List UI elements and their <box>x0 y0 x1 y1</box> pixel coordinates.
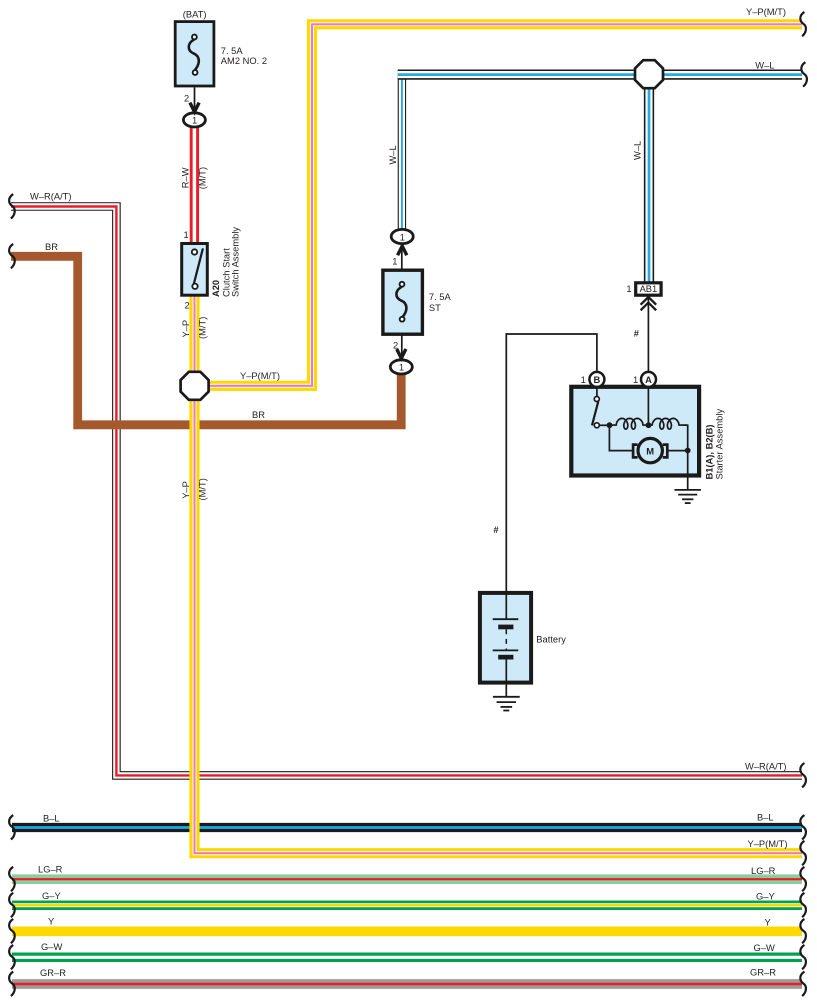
svg-text:GR–R: GR–R <box>750 968 776 978</box>
connector 1 below AM2 fuse <box>183 113 205 127</box>
double chevron below AB1 <box>641 297 657 310</box>
svg-text:Y: Y <box>48 917 55 927</box>
break B-L left <box>9 815 15 839</box>
break G-Y right <box>800 893 806 917</box>
wire R-W between connector 1 and clutch start switch pin 1 <box>190 124 199 244</box>
break W-R(A/T) left <box>9 194 15 218</box>
starter internal: relay blade <box>592 401 598 425</box>
starter internal: motor right wire <box>667 450 687 452</box>
svg-text:A20: A20 <box>211 280 221 297</box>
wire W-L from octagon junction down to connector AB1 <box>644 75 654 283</box>
svg-text:GR–R: GR–R <box>40 968 66 978</box>
svg-text:2: 2 <box>184 300 189 310</box>
bus B-L <box>12 823 802 832</box>
svg-text:1: 1 <box>192 116 197 126</box>
break Y-P(M/T) top right <box>800 12 806 36</box>
break Y right <box>800 919 806 943</box>
wire W-L horizontal to right break <box>398 69 802 79</box>
fuse symbol ST <box>396 287 406 318</box>
wire W-R(A/T) from left break down to bottom-right break <box>11 207 802 776</box>
wire Y-P from clutch switch pin 2 through octagon down to bottom-right break <box>195 296 803 853</box>
terminal B circle <box>589 372 604 387</box>
pin 1 lead of ST fuse <box>401 243 403 270</box>
svg-text:Y–P(M/T): Y–P(M/T) <box>748 839 788 849</box>
bus G-Y <box>12 900 802 910</box>
svg-text:7. 5A: 7. 5A <box>429 292 452 302</box>
svg-text:1: 1 <box>581 375 586 385</box>
break BR left <box>9 244 15 268</box>
arrow down into connector below AM2 <box>190 103 199 112</box>
break G-W right <box>800 945 806 969</box>
break GR-R left <box>9 972 15 996</box>
svg-text:1: 1 <box>392 256 397 266</box>
break W-L right <box>801 62 807 86</box>
clutch start switch box A20 <box>182 244 208 296</box>
arrow up into connector above ST <box>398 246 407 255</box>
svg-text:AM2 NO. 2: AM2 NO. 2 <box>221 56 267 66</box>
svg-text:#: # <box>634 329 640 339</box>
break G-Y left <box>9 893 15 917</box>
battery internal symbol <box>505 593 507 619</box>
wire Y-P(M/T) from octagon right then up to top-right break <box>194 24 802 386</box>
motor brush right <box>663 445 668 458</box>
ground symbol (battery) <box>505 685 507 697</box>
svg-text:LG–R: LG–R <box>751 866 776 876</box>
svg-text:W–R(A/T): W–R(A/T) <box>30 191 72 201</box>
svg-text:#: # <box>493 525 499 535</box>
ground symbol (starter) <box>675 489 701 491</box>
svg-text:(M/T): (M/T) <box>198 167 208 189</box>
battery box <box>480 593 531 683</box>
starter internal: lead from B to relay switch <box>596 387 598 397</box>
svg-text:Y–P(M/T): Y–P(M/T) <box>746 7 786 17</box>
starter internal: node to motor left <box>609 424 633 451</box>
junction dot motor right node <box>685 448 691 454</box>
break B-L right <box>800 815 806 839</box>
break LG-R left <box>9 867 15 891</box>
terminal A circle <box>641 372 656 387</box>
starter internal: right side wire down to ground <box>683 425 688 490</box>
break GR-R right <box>800 972 806 996</box>
svg-text:(BAT): (BAT) <box>183 9 207 19</box>
fuse symbol AM2 <box>189 39 199 70</box>
svg-text:2: 2 <box>184 94 189 104</box>
motor brush left <box>633 445 638 458</box>
svg-text:B–L: B–L <box>757 812 774 822</box>
junction octagon (Y-P splice) <box>181 372 209 400</box>
arrow down into connector below ST <box>397 349 406 358</box>
svg-text:B: B <box>594 375 601 385</box>
bus G-W <box>12 953 802 963</box>
svg-text:Y–P(M/T): Y–P(M/T) <box>240 371 280 381</box>
fuse box 7.5A AM2 NO.2 <box>175 22 214 86</box>
svg-text:Y–P: Y–P <box>181 481 191 499</box>
wire battery positive to starter terminal B <box>506 334 597 592</box>
svg-text:BR: BR <box>45 242 58 252</box>
svg-text:G–Y: G–Y <box>42 891 61 901</box>
svg-text:Y: Y <box>765 918 772 928</box>
break W-R(A/T) right <box>800 763 806 787</box>
svg-text:1: 1 <box>399 363 404 373</box>
svg-text:(M/T): (M/T) <box>198 317 208 339</box>
connector 1 below ST fuse <box>390 360 412 374</box>
bus LG-R <box>12 874 802 884</box>
wire AB1 to starter terminal A <box>647 297 649 372</box>
pin 2 lead of ST fuse <box>401 334 403 360</box>
svg-text:Switch Assembly: Switch Assembly <box>230 227 240 297</box>
svg-text:Battery: Battery <box>536 635 566 645</box>
break Y-P(M/T) right <box>800 841 806 865</box>
switch blade inside A20 <box>194 248 203 283</box>
break Y left <box>9 919 15 943</box>
svg-text:LG–R: LG–R <box>38 865 63 875</box>
svg-text:Y–P: Y–P <box>181 320 191 338</box>
svg-text:1: 1 <box>633 375 638 385</box>
wire BR from left break to connector below ST fuse <box>11 256 401 425</box>
junction dot left coil node <box>607 422 613 428</box>
svg-text:2: 2 <box>393 340 398 350</box>
fuse box 7.5A ST <box>383 270 423 334</box>
motor M circle <box>638 438 662 462</box>
svg-text:W–L: W–L <box>388 145 398 164</box>
svg-text:G–W: G–W <box>754 943 775 953</box>
svg-text:A: A <box>645 375 652 385</box>
svg-text:B–L: B–L <box>43 813 60 823</box>
svg-text:W–L: W–L <box>633 141 643 160</box>
starter assembly box <box>571 387 699 476</box>
svg-text:G–W: G–W <box>41 942 62 952</box>
svg-text:1: 1 <box>626 284 631 294</box>
svg-text:1: 1 <box>400 232 405 242</box>
svg-text:(M/T): (M/T) <box>198 478 208 500</box>
break G-W left <box>9 945 15 969</box>
starter internal: lead from A down to coil node <box>647 387 649 425</box>
svg-text:AB1: AB1 <box>640 284 658 294</box>
svg-text:BR: BR <box>252 410 265 420</box>
svg-text:B1(A), B2(B): B1(A), B2(B) <box>705 424 715 479</box>
svg-text:G–Y: G–Y <box>756 891 775 901</box>
svg-text:7. 5A: 7. 5A <box>221 46 244 56</box>
starter internal: pull-in coil <box>610 418 649 429</box>
svg-text:1: 1 <box>183 230 188 240</box>
wire W-L vertical from connector above ST fuse <box>398 75 406 232</box>
connector 1 above ST fuse <box>391 229 413 243</box>
svg-text:ST: ST <box>429 303 441 313</box>
svg-text:W–R(A/T): W–R(A/T) <box>745 762 787 772</box>
starter internal: hold-in coil <box>649 418 688 429</box>
break LG-R right <box>800 867 806 891</box>
svg-text:M: M <box>646 447 654 457</box>
svg-text:R–W: R–W <box>181 167 191 188</box>
svg-text:Starter Assembly: Starter Assembly <box>715 409 725 480</box>
junction octagon (W-L splice) <box>635 60 663 88</box>
starter internal: wire lower contact to node <box>600 424 612 426</box>
connector AB1 box <box>636 283 661 295</box>
pin 2 lead of AM2 fuse <box>194 87 196 114</box>
bus GR-R <box>12 979 802 989</box>
svg-text:W–L: W–L <box>755 61 774 71</box>
bus Y <box>12 926 802 936</box>
junction dot A coil node <box>646 422 652 428</box>
